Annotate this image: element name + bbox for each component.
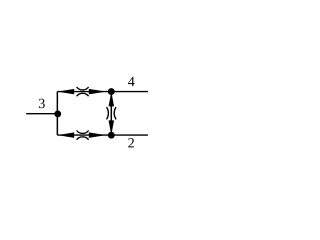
G1 upper arc: [77, 87, 89, 90]
node 4 junction dot: [108, 88, 115, 95]
G1 right arrowhead: [89, 89, 106, 95]
G2 right arrowhead: [89, 132, 106, 138]
wire top branch: [57, 91, 148, 93]
label node 4: [128, 77, 135, 86]
wire left riser: [56, 92, 58, 136]
G3 down arrowhead: [109, 120, 115, 135]
wire vertical branch: [110, 92, 112, 136]
spark gap element G1 (top branch): [58, 87, 106, 96]
node 3 junction dot: [54, 110, 61, 117]
G2 upper arc: [77, 131, 89, 134]
spark gap element G3 (vertical branch): [107, 92, 117, 136]
G3 up arrowhead: [109, 92, 115, 107]
node 2 junction dot: [108, 132, 115, 139]
G2 left arrowhead: [58, 132, 75, 138]
G2 lower arc: [77, 137, 89, 140]
G1 lower arc: [77, 93, 89, 96]
label node 3: [39, 99, 45, 108]
G3 left arc: [107, 107, 109, 119]
G1 left arrowhead: [58, 89, 75, 95]
wire bottom branch: [57, 134, 148, 136]
G3 right arc: [114, 107, 116, 119]
label node 2: [128, 138, 134, 147]
spark gap element G2 (bottom branch): [58, 131, 106, 140]
wire node 3 stub: [26, 113, 58, 115]
